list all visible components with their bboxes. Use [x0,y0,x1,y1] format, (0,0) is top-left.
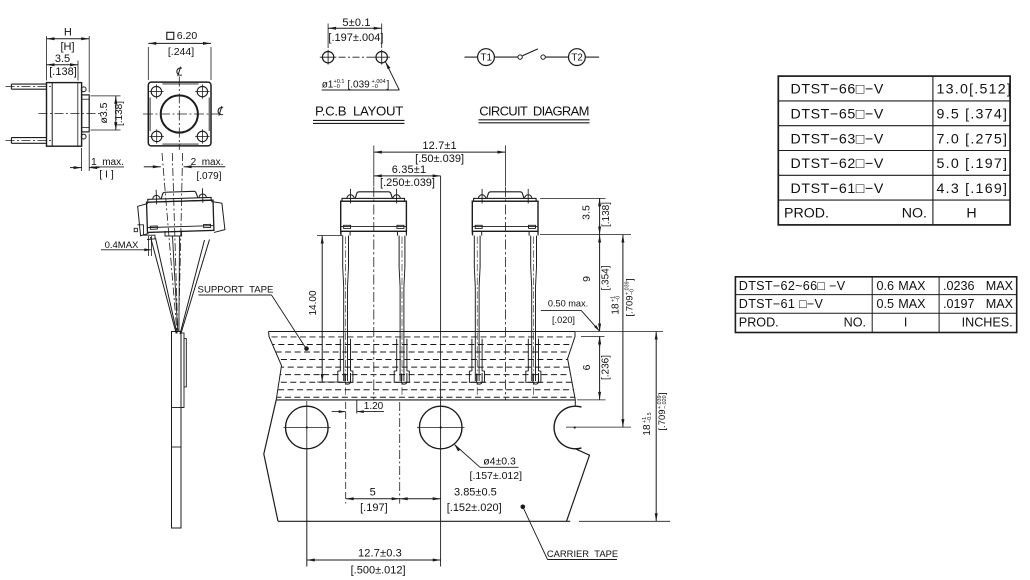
svg-text:3.85±0.5: 3.85±0.5 [454,487,497,499]
svg-text:3.5: 3.5 [581,205,593,220]
svg-text:MAX: MAX [986,297,1014,311]
svg-text:.0197: .0197 [943,297,975,311]
svg-text:[.020]: [.020] [552,315,575,325]
svg-text:[.709: [.709 [657,409,668,430]
svg-text:5: 5 [370,487,376,499]
svg-text:]: ] [657,392,668,395]
svg-text:[H]: [H] [60,41,74,53]
svg-text:7.0 [.275]: 7.0 [.275] [937,131,1009,147]
svg-text:[ I ]: [ I ] [99,169,114,181]
svg-text:[.250±.039]: [.250±.039] [380,177,435,189]
svg-text:3.5: 3.5 [55,53,70,65]
svg-text:−0: −0 [372,84,378,90]
svg-text:INCHES.: INCHES. [962,316,1013,330]
svg-text:−0.5: −0.5 [647,412,653,423]
svg-text:[.709: [.709 [625,295,636,316]
svg-text:]: ] [387,80,390,91]
svg-text:[.244]: [.244] [168,46,194,58]
svg-text:[.039: [.039 [348,80,371,91]
svg-text:[.079]: [.079] [196,171,221,182]
svg-text:DTST−62□−V: DTST−62□−V [791,156,884,172]
svg-text:T1: T1 [480,53,491,64]
svg-text:6.20: 6.20 [177,30,198,42]
svg-text:[.236]: [.236] [601,355,612,380]
svg-text:P.C.B LAYOUT: P.C.B LAYOUT [315,104,403,119]
svg-text:−.020: −.020 [662,395,668,409]
svg-text:DTST−62~66□ −V: DTST−62~66□ −V [739,279,846,293]
svg-text:I: I [904,316,908,330]
svg-text:DTST−61□−V: DTST−61□−V [791,181,884,197]
svg-text:SUPPORT TAPE: SUPPORT TAPE [198,284,274,295]
svg-text:[.138]: [.138] [49,66,77,78]
svg-text:0.4MAX: 0.4MAX [105,240,139,251]
svg-text:6: 6 [581,364,593,370]
svg-text:18: 18 [611,303,622,315]
svg-text:18: 18 [642,424,653,436]
svg-text:PROD.: PROD. [784,206,829,222]
svg-text:T2: T2 [571,53,582,64]
svg-text:ø4±0.3: ø4±0.3 [483,456,516,468]
svg-text:PROD.: PROD. [739,316,779,330]
svg-text:.0236: .0236 [943,279,975,293]
svg-text:12.7±1: 12.7±1 [422,140,456,152]
svg-text:6.35±1: 6.35±1 [392,164,426,176]
svg-text:[.197]: [.197] [360,502,388,514]
svg-text:CIRCUIT DIAGRAM: CIRCUIT DIAGRAM [479,104,588,119]
svg-text:H: H [64,26,72,38]
svg-text:NO.: NO. [844,316,866,330]
svg-text:0.5: 0.5 [877,297,895,311]
svg-text:1.20: 1.20 [364,401,384,412]
svg-text:]: ] [625,278,636,281]
svg-text:[.157±.012]: [.157±.012] [470,470,523,482]
svg-text:5.0 [.197]: 5.0 [.197] [937,156,1009,172]
svg-text:−0: −0 [334,84,340,90]
svg-text:9: 9 [581,276,593,282]
svg-text:MAX: MAX [986,279,1014,293]
svg-text:13.0[.512]: 13.0[.512] [937,82,1013,98]
svg-text:[.500±.012]: [.500±.012] [351,564,406,576]
svg-text:CARRIER TAPE: CARRIER TAPE [547,548,618,559]
svg-text:12.7±0.3: 12.7±0.3 [358,548,402,560]
svg-text:4.3 [.169]: 4.3 [.169] [937,181,1009,197]
svg-text:DTST−63□−V: DTST−63□−V [791,131,884,147]
svg-text:ø3.5: ø3.5 [98,102,110,123]
svg-text:1 max.: 1 max. [91,157,124,168]
svg-text:0.6: 0.6 [877,279,895,293]
svg-text:9.5 [.374]: 9.5 [.374] [937,107,1009,123]
svg-text:ø1: ø1 [322,80,334,91]
svg-text:H: H [966,206,976,222]
svg-text:NO.: NO. [902,206,927,222]
svg-text:[.197±.004]: [.197±.004] [328,32,383,44]
svg-text:−0: −0 [630,289,636,295]
svg-text:14.00: 14.00 [308,290,319,315]
svg-text:[.138]: [.138] [601,202,612,227]
svg-text:2 max.: 2 max. [191,157,224,168]
svg-text:5±0.1: 5±0.1 [342,17,370,29]
svg-text:−0: −0 [616,296,622,302]
svg-text:0.50 max.: 0.50 max. [548,299,588,309]
svg-text:DTST−66□−V: DTST−66□−V [791,82,884,98]
svg-text:[.138]: [.138] [114,101,125,126]
svg-text:[.152±.020]: [.152±.020] [447,502,502,514]
svg-text:DTST−65□−V: DTST−65□−V [791,107,884,123]
svg-text:DTST−61 □−V: DTST−61 □−V [739,297,824,311]
svg-text:MAX: MAX [898,279,926,293]
svg-text:MAX: MAX [898,297,926,311]
svg-text:[.354]: [.354] [601,265,612,290]
